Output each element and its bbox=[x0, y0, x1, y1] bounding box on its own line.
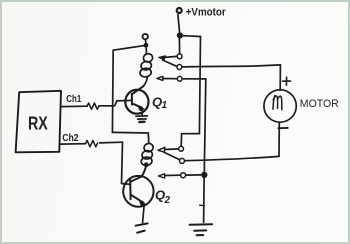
relay K2 blade to common bbox=[164, 152, 180, 160]
wire K2 NC to ground node bbox=[186, 174, 201, 176]
relay K1 blade to common bbox=[163, 60, 177, 66]
wire K1 NC to ground rail bbox=[182, 78, 205, 80]
wire node A to left rail bbox=[113, 46, 143, 51]
wire rail to coil L2 top bbox=[112, 132, 148, 143]
motor M glyph bbox=[273, 96, 282, 110]
wire node B to relay K1 NO bbox=[178, 39, 180, 54]
node D (ground junction) bbox=[201, 172, 207, 178]
wire motor minus down bbox=[278, 122, 280, 156]
relay K1 NC arrow bbox=[157, 76, 163, 80]
relay K1 common contact bbox=[177, 65, 182, 70]
relay K1 NC contact bbox=[177, 76, 182, 81]
svg-text:Ch2: Ch2 bbox=[62, 132, 78, 144]
relay K2 NC arrow bbox=[158, 174, 164, 178]
relay K1 armature arrow bbox=[159, 56, 166, 60]
ground rail down bbox=[204, 79, 206, 172]
resistor R2 bbox=[85, 141, 97, 147]
wire node D to ground bbox=[203, 178, 206, 222]
relay K2 NC link bbox=[165, 174, 180, 176]
node A (coil1 top junction) bbox=[144, 43, 149, 48]
relay coil L1 bbox=[139, 47, 153, 77]
node B (+V junction) bbox=[177, 32, 183, 38]
minus terminal label bbox=[278, 127, 287, 129]
terminal +Vmotor bbox=[177, 8, 182, 13]
relay K2 armature arrow bbox=[158, 147, 165, 152]
+V rail down bbox=[199, 37, 200, 134]
relay K1 arm to NO bbox=[165, 56, 177, 57]
RX receiver box bbox=[16, 91, 61, 153]
ground right bbox=[190, 224, 213, 235]
wire R1 to Q1 base bbox=[99, 100, 131, 106]
wire RX to R1 bbox=[61, 105, 87, 107]
ground below Q1 bbox=[136, 109, 148, 122]
relay K2 NO contact bbox=[179, 146, 184, 151]
svg-text:2: 2 bbox=[164, 195, 171, 206]
svg-text:RX: RX bbox=[28, 113, 48, 133]
wire R2 to rail bbox=[100, 141, 123, 144]
label Q1 bbox=[152, 95, 168, 112]
wire Ch2 rail down to Q2 base bbox=[122, 142, 130, 184]
wire coil L1 to Q1 collector bbox=[143, 76, 147, 86]
wire +Vmotor to node B bbox=[178, 15, 180, 33]
wire K1 common to motor plus bbox=[182, 65, 280, 67]
wire RX to R2 bbox=[61, 143, 86, 145]
tick on ground rail bbox=[200, 204, 205, 207]
relay K2 common contact bbox=[180, 158, 185, 163]
relay K1 NC link bbox=[163, 78, 177, 80]
terminal coil supply bbox=[143, 34, 148, 39]
wire K2 common to motor minus bbox=[185, 156, 279, 160]
relay coil L2 bbox=[141, 143, 154, 167]
relay K2 NC contact bbox=[181, 173, 186, 178]
wire node B to +V rail bbox=[183, 35, 201, 38]
wire motor plus down bbox=[279, 65, 281, 90]
svg-text:MOTOR: MOTOR bbox=[300, 98, 339, 110]
label Q2 bbox=[155, 188, 171, 207]
transistor Q1 bbox=[125, 86, 148, 114]
relay K2 arm to NO bbox=[165, 148, 179, 151]
node C (coil L2 to Q2 collector) bbox=[144, 162, 149, 167]
svg-text:+Vmotor: +Vmotor bbox=[186, 7, 227, 19]
transistor Q2 bbox=[123, 167, 153, 222]
svg-text:Ch1: Ch1 bbox=[66, 93, 81, 105]
motor M1 bbox=[264, 90, 296, 122]
wire terminal to node A bbox=[144, 40, 147, 43]
plus terminal label bbox=[283, 77, 291, 85]
wire left rail down bbox=[111, 50, 114, 132]
relay K1 NO contact bbox=[177, 54, 182, 59]
+V rail to relay K2 NO bbox=[181, 134, 199, 146]
ground below Q2 bbox=[136, 223, 148, 232]
svg-text:1: 1 bbox=[162, 100, 168, 111]
resistor R1 bbox=[87, 103, 99, 109]
